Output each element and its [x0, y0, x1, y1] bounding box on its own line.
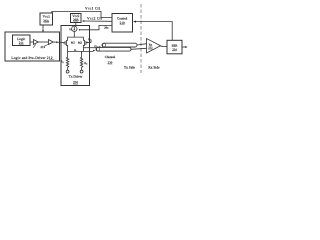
svg-text:Vcc1: Vcc1 — [43, 14, 50, 18]
svg-text:Vcc1 Ctl: Vcc1 Ctl — [85, 7, 100, 11]
svg-text:Tx Driver: Tx Driver — [69, 75, 83, 79]
svg-text:Control: Control — [117, 17, 127, 21]
svg-text:28a: 28a — [104, 26, 109, 29]
svg-text:M1: M1 — [71, 41, 76, 45]
svg-text:Tx Side: Tx Side — [124, 66, 135, 70]
svg-text:Channel: Channel — [105, 55, 116, 59]
svg-text:M2: M2 — [78, 41, 83, 45]
svg-text:Vcc2 Ctl: Vcc2 Ctl — [87, 16, 102, 20]
svg-text:256: 256 — [73, 81, 78, 85]
svg-text:219: 219 — [41, 45, 46, 49]
svg-text:Logic and Pre-Driver 212: Logic and Pre-Driver 212 — [11, 56, 52, 60]
svg-text:Rx Side: Rx Side — [148, 66, 160, 70]
